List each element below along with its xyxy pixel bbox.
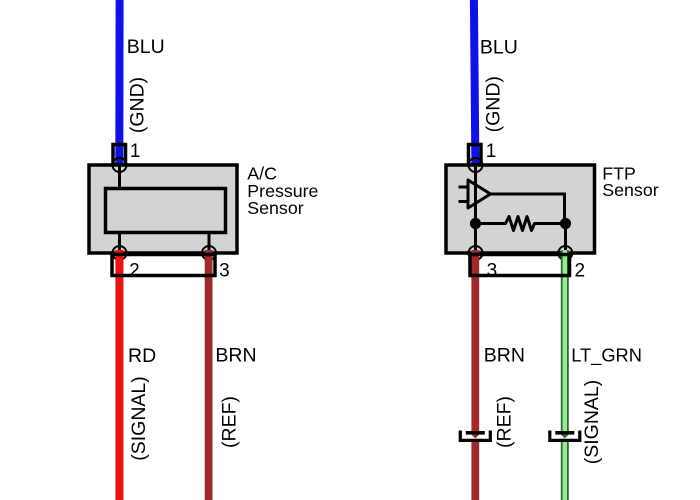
svg-text:1: 1 (486, 141, 497, 162)
svg-text:1: 1 (130, 141, 141, 162)
svg-text:LT_GRN: LT_GRN (571, 344, 642, 366)
svg-text:(REF): (REF) (493, 396, 515, 448)
svg-text:BLU: BLU (127, 36, 165, 58)
svg-text:2: 2 (575, 260, 586, 281)
svg-text:(GND): (GND) (483, 76, 505, 132)
svg-text:(REF): (REF) (219, 396, 241, 448)
svg-text:(GND): (GND) (127, 77, 149, 133)
svg-text:BRN: BRN (215, 345, 256, 367)
svg-text:3: 3 (487, 260, 498, 281)
svg-text:RD: RD (128, 345, 156, 367)
svg-text:(SIGNAL): (SIGNAL) (128, 376, 150, 461)
svg-text:BRN: BRN (484, 345, 525, 367)
svg-text:3: 3 (219, 260, 230, 281)
svg-text:Sensor: Sensor (602, 180, 658, 200)
svg-text:BLU: BLU (480, 37, 518, 59)
svg-text:2: 2 (129, 260, 140, 281)
svg-text:(SIGNAL): (SIGNAL) (581, 380, 603, 465)
svg-text:Sensor: Sensor (247, 198, 303, 218)
